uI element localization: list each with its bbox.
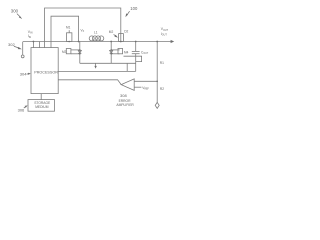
svg-text:AMPLIFIER: AMPLIFIER bbox=[116, 103, 134, 107]
svg-text:R2: R2 bbox=[160, 87, 164, 91]
svg-text:306: 306 bbox=[18, 107, 25, 112]
svg-text:VX: VX bbox=[81, 28, 85, 33]
svg-text:M3: M3 bbox=[62, 50, 67, 54]
svg-text:IOUT: IOUT bbox=[161, 32, 168, 37]
svg-text:COUT: COUT bbox=[141, 51, 149, 56]
svg-text:PROCESSOR: PROCESSOR bbox=[34, 70, 58, 74]
svg-text:308: 308 bbox=[120, 93, 127, 98]
svg-text:VREF: VREF bbox=[142, 86, 149, 91]
svg-text:R1: R1 bbox=[160, 61, 164, 65]
svg-text:IIN: IIN bbox=[28, 34, 32, 39]
svg-text:304: 304 bbox=[20, 71, 27, 76]
svg-text:100: 100 bbox=[130, 6, 138, 11]
svg-text:300: 300 bbox=[11, 9, 19, 14]
svg-text:D2: D2 bbox=[124, 30, 128, 34]
svg-text:M1: M1 bbox=[66, 25, 71, 29]
svg-text:M2: M2 bbox=[109, 30, 114, 34]
svg-text:M4: M4 bbox=[124, 50, 129, 54]
svg-text:VOUT: VOUT bbox=[161, 27, 169, 32]
svg-text:L1: L1 bbox=[94, 30, 98, 34]
svg-text:MEDIUM: MEDIUM bbox=[35, 105, 49, 109]
svg-text:302: 302 bbox=[8, 42, 15, 47]
